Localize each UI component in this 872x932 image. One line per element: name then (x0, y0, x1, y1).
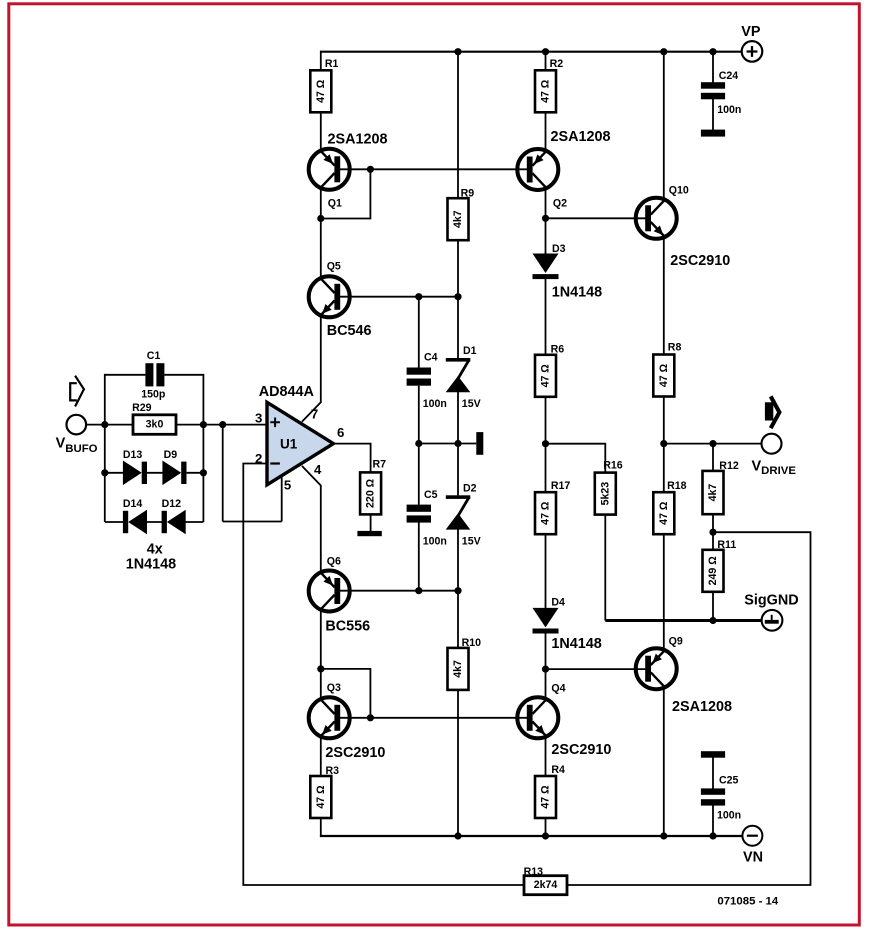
svg-text:4k7: 4k7 (452, 660, 464, 678)
wire: R6 to junction (545, 396, 547, 444)
terminal SigGND (762, 610, 783, 631)
svg-text:4x: 4x (147, 542, 163, 558)
svg-text:100n: 100n (717, 810, 741, 822)
wire: branch to R16 (546, 444, 606, 473)
wire: D3 top lead (545, 218, 547, 254)
capacitor C1 (145, 363, 164, 386)
capacitor C5 (407, 505, 431, 523)
wire: op-amp pin 4 to Q6 (302, 466, 321, 572)
wire: R2 to Q2 (545, 112, 547, 150)
svg-text:R29: R29 (132, 402, 152, 414)
junction Q6 base / C5 (415, 587, 422, 594)
ground bar (R7) (357, 531, 381, 536)
junction D13 row / left rail (101, 469, 108, 476)
junction Q1 collector tie (317, 215, 324, 222)
svg-text:C4: C4 (424, 352, 438, 364)
junction mid row / C4 (415, 440, 422, 447)
svg-text:R8: R8 (668, 341, 682, 353)
wire: R3 to VN rail (320, 818, 322, 836)
plane bar (zener midpoint) (476, 432, 483, 455)
plane bar (C24) (701, 130, 725, 137)
svg-text:4: 4 (314, 462, 322, 477)
svg-text:SigGND: SigGND (744, 593, 798, 609)
wire: input network right rail (202, 374, 204, 522)
junction VN rail / Q9 (660, 832, 667, 839)
capacitor C4 (407, 368, 431, 386)
wire: Q6/Q3 collector-base tie (321, 669, 371, 718)
transistor Q2 (517, 149, 558, 190)
svg-text:071085 - 14: 071085 - 14 (717, 895, 778, 907)
svg-text:R9: R9 (461, 187, 475, 199)
svg-text:VP: VP (741, 24, 761, 40)
wire: R9 to Q5 base row (457, 240, 459, 297)
wire: C1 row right (164, 374, 203, 376)
svg-text:D13: D13 (123, 449, 143, 461)
wire: Q9 collector to VN rail (663, 688, 665, 836)
wire: R12 to R11 junction (712, 514, 714, 550)
svg-text:15V: 15V (462, 536, 481, 548)
zener diode D1 (446, 358, 471, 392)
resistor R10 (448, 648, 469, 690)
svg-text:R12: R12 (719, 460, 739, 472)
svg-text:R11: R11 (717, 539, 736, 551)
transistor Q1 (309, 149, 350, 190)
wire: C24 top lead (712, 52, 714, 83)
svg-text:100n: 100n (423, 536, 447, 548)
transistor Q3 (309, 697, 350, 738)
svg-text:R10: R10 (462, 637, 482, 649)
wire: D3 to R6 (545, 278, 547, 355)
junction Q5 base / C4 (415, 293, 422, 300)
resistor R12 (703, 471, 724, 514)
transistor Q6 (309, 571, 350, 612)
wire: R17 to D4 (545, 534, 547, 608)
svg-text:3k0: 3k0 (146, 419, 164, 431)
junction V_DRIVE / R12 (709, 440, 716, 447)
junction R12 / R11 / feedback (709, 529, 716, 536)
wire: D1 anode lead (457, 392, 459, 444)
svg-text:249 Ω: 249 Ω (707, 556, 719, 586)
zener diode D2 (446, 495, 471, 529)
svg-text:100n: 100n (717, 104, 741, 116)
svg-text:Q4: Q4 (551, 683, 565, 695)
wire: C25 plane bar lead (712, 757, 714, 789)
plane bar (C25) (701, 751, 725, 758)
diode D13 (123, 461, 147, 486)
svg-text:D2: D2 (463, 483, 477, 495)
transistor Q9 (636, 648, 677, 689)
wire: mid junction row with plane stub (419, 443, 477, 445)
svg-text:47 Ω: 47 Ω (658, 363, 670, 387)
svg-text:D3: D3 (552, 243, 566, 255)
svg-text:C5: C5 (424, 489, 438, 501)
diode D12 (162, 510, 186, 535)
wire: VN supply rail (320, 835, 743, 837)
junction VP rail / R9 (454, 48, 461, 55)
junction VP rail / R2 (542, 48, 549, 55)
svg-text:R1: R1 (325, 58, 339, 70)
svg-text:2SA1208: 2SA1208 (328, 132, 388, 148)
wire: C24 to plane bar (712, 99, 714, 131)
svg-text:2SC2910: 2SC2910 (325, 745, 385, 761)
junction VN rail / R4 (542, 832, 549, 839)
junction VP rail / C24 (709, 48, 716, 55)
capacitor C24 (701, 82, 725, 99)
wire: Q1 base to Q2 base row (340, 168, 531, 170)
resistor R16 (595, 473, 616, 515)
svg-text:220 Ω: 220 Ω (365, 478, 377, 508)
junction pin3 node (219, 421, 226, 428)
svg-text:6: 6 (337, 425, 344, 440)
terminal V_BUFO (67, 415, 87, 435)
junction Q6 collector tie (317, 665, 324, 672)
svg-text:R7: R7 (373, 459, 387, 471)
wire: Q5 base row (340, 296, 459, 298)
transistor Q5 (309, 276, 350, 317)
svg-text:C24: C24 (719, 70, 739, 82)
junction Q2 collector / D3 (542, 215, 549, 222)
resistor R17 (535, 492, 556, 534)
wire: R8 to V_DRIVE row (663, 396, 665, 444)
svg-text:Q9: Q9 (669, 636, 683, 648)
resistor R6 (535, 355, 556, 397)
wire: Q1 to Q5 (collector column) (320, 189, 322, 277)
svg-text:4k7: 4k7 (707, 484, 719, 502)
svg-text:150p: 150p (141, 389, 166, 401)
terminal VP (742, 41, 763, 62)
wire: C5 bottom lead (418, 522, 420, 591)
resistor R1 (310, 70, 331, 112)
svg-text:47 Ω: 47 Ω (540, 501, 552, 525)
transistor Q10 (636, 198, 677, 239)
wire: input network left rail (104, 374, 106, 522)
svg-text:D9: D9 (164, 449, 178, 461)
capacitor C25 (701, 788, 725, 805)
svg-text:R3: R3 (326, 765, 340, 777)
wire: R18 to Q9 emitter (663, 535, 665, 650)
svg-text:15V: 15V (462, 398, 481, 410)
wire: R12 top lead (712, 444, 714, 471)
wire: op-amp output to R7 (333, 444, 370, 473)
wire: C1 row left (105, 374, 146, 376)
svg-text:BC546: BC546 (327, 323, 372, 339)
resistor R18 (653, 492, 674, 534)
wire: D4 to Q4 (545, 631, 547, 698)
junction D4 / Q9 base (542, 666, 549, 673)
op-amp U1 (267, 402, 333, 485)
svg-text:R2: R2 (550, 58, 564, 70)
resistor R3 (310, 776, 331, 818)
wire: R17 top lead (545, 444, 547, 493)
svg-text:100n: 100n (423, 398, 447, 410)
svg-text:Q10: Q10 (669, 185, 689, 197)
wire: Q6 collector to Q3 (320, 611, 322, 699)
wire: Q4 base row to Q9 (546, 668, 648, 670)
wire: R10 to VN rail (457, 690, 459, 837)
svg-text:5: 5 (284, 478, 291, 493)
wire: R2 top lead (545, 52, 547, 71)
junction mid row / D1 (454, 440, 461, 447)
svg-text:R6: R6 (551, 343, 565, 355)
wire: R29 to op-amp pin 3 (176, 424, 268, 426)
wire: R18 top lead (663, 444, 665, 493)
svg-text:47 Ω: 47 Ω (540, 79, 552, 103)
svg-text:R16: R16 (603, 459, 623, 471)
svg-text:47 Ω: 47 Ω (540, 785, 552, 809)
svg-text:R4: R4 (551, 764, 565, 776)
resistor R2 (535, 70, 556, 112)
diode D3 (533, 254, 559, 280)
wire: C4 top lead (418, 297, 420, 368)
wire: Q3 base to Q4 base row (340, 717, 531, 719)
wire: Q2 collector lead (545, 189, 547, 218)
svg-text:D14: D14 (123, 498, 143, 510)
junction input / left rail (101, 421, 108, 428)
svg-text:47 Ω: 47 Ω (315, 79, 327, 103)
svg-text:1N4148: 1N4148 (552, 284, 602, 300)
svg-text:R13: R13 (524, 866, 544, 878)
wire: Q10 emitter to R8 (663, 236, 665, 355)
resistor R29 (133, 415, 176, 435)
junction VN rail / C25 (709, 832, 716, 839)
svg-text:3: 3 (255, 411, 262, 426)
svg-text:AD844A: AD844A (259, 384, 315, 400)
wire: V_DRIVE row (664, 443, 762, 445)
svg-text:2SC2910: 2SC2910 (551, 742, 611, 758)
svg-text:BC556: BC556 (325, 619, 370, 635)
resistor R4 (535, 776, 556, 818)
resistor R8 (653, 355, 674, 397)
svg-text:C1: C1 (147, 350, 161, 362)
svg-text:5k23: 5k23 (599, 482, 611, 506)
svg-text:D12: D12 (162, 498, 182, 510)
resistor R13 (524, 876, 567, 895)
wire: R13 to inverting input (243, 464, 524, 886)
diode D14 (123, 510, 147, 535)
wire: C5 top lead (418, 444, 420, 505)
wire: R11 to SigGND row (712, 591, 714, 620)
wire: pin3 node vertical (222, 425, 224, 522)
wire: Q4 emitter to R4 (545, 737, 547, 776)
wire: Q10 collector column (663, 52, 665, 201)
svg-text:R18: R18 (667, 480, 687, 492)
junction R6 / R17 / R16 (542, 440, 549, 447)
wire: D14/D12 row (105, 521, 204, 523)
svg-text:Q2: Q2 (553, 197, 567, 209)
wire: SigGND bus (605, 619, 761, 622)
wire: R7 to ground bar (370, 513, 372, 531)
wire: R9 column top (457, 52, 459, 199)
terminal V_DRIVE (762, 434, 782, 454)
junction VP rail / Q10 (660, 48, 667, 55)
svg-text:C25: C25 (719, 775, 739, 787)
svg-text:2SA1208: 2SA1208 (551, 129, 611, 145)
wire: R4 to VN rail (545, 818, 547, 836)
junction Q6 base / D2 (454, 587, 461, 594)
svg-text:47 Ω: 47 Ω (540, 364, 552, 388)
junction input / right rail (200, 421, 207, 428)
svg-text:2k74: 2k74 (534, 879, 558, 891)
wire: pin5 tie row (223, 521, 282, 523)
wire: D2 anode lead (457, 530, 459, 591)
svg-text:D1: D1 (463, 345, 477, 357)
junction Q3 base tie (367, 714, 374, 721)
wire: R16 bottom lead (604, 514, 606, 621)
svg-text:Q5: Q5 (327, 261, 341, 273)
wire: VP supply rail (321, 51, 743, 53)
svg-text:4k7: 4k7 (452, 210, 464, 228)
wire: feedback from R12/R11 junction (567, 532, 811, 885)
wire: op-amp pin 5 stub (281, 476, 283, 522)
resistor R7 (360, 472, 381, 514)
svg-text:7: 7 (311, 407, 318, 422)
transistor Q4 (517, 697, 558, 738)
wire: R1 to Q1 (320, 112, 322, 150)
svg-text:U1: U1 (280, 436, 298, 451)
terminal VN (742, 826, 762, 846)
resistor R9 (448, 198, 469, 240)
wire: Q6 base row (340, 590, 459, 592)
svg-text:VN: VN (743, 850, 763, 866)
junction VN rail / R10 (454, 832, 461, 839)
wire: D2 cathode lead (457, 444, 459, 496)
diode D9 (162, 461, 186, 486)
junction SigGND / R11 (709, 617, 716, 624)
wire: C25 bottom lead (712, 805, 714, 836)
wire: C4 bottom lead (418, 386, 420, 444)
wire: Q3 emitter to R3 (320, 737, 322, 776)
junction Q1 base tie (367, 166, 374, 173)
svg-text:2SA1208: 2SA1208 (672, 699, 732, 715)
wire: R1 top lead (320, 51, 322, 71)
wire: R10 top lead (457, 591, 459, 648)
svg-text:47 Ω: 47 Ω (658, 501, 670, 525)
input arrow (V_BUFO) (70, 376, 84, 407)
svg-text:Q6: Q6 (327, 556, 341, 568)
svg-text:2SC2910: 2SC2910 (670, 253, 730, 269)
svg-text:Q1: Q1 (328, 197, 342, 209)
svg-text:R17: R17 (551, 480, 571, 492)
svg-text:1N4148: 1N4148 (126, 557, 176, 573)
junction Q5 base / D1 (454, 293, 461, 300)
wire: D1 cathode lead (457, 297, 459, 359)
svg-text:2: 2 (255, 451, 262, 466)
diode D4 (533, 608, 559, 634)
svg-text:47 Ω: 47 Ω (315, 785, 327, 809)
svg-text:D4: D4 (551, 597, 565, 609)
svg-text:Q3: Q3 (327, 682, 341, 694)
wire: V_BUFO to R29 (86, 424, 133, 426)
svg-text:1N4148: 1N4148 (551, 636, 601, 652)
resistor R11 (703, 550, 724, 592)
wire: Q5 emitter to op-amp pin 7 (302, 316, 321, 421)
output arrow (V_DRIVE) (765, 396, 780, 428)
junction V_DRIVE / R8 (660, 440, 667, 447)
wire: D13/D9 row (105, 472, 204, 474)
junction D13 row / right rail (200, 469, 207, 476)
wire: Q2 collector to Q10 base (546, 217, 648, 219)
wire: Q1 base-collector tie (321, 169, 371, 218)
